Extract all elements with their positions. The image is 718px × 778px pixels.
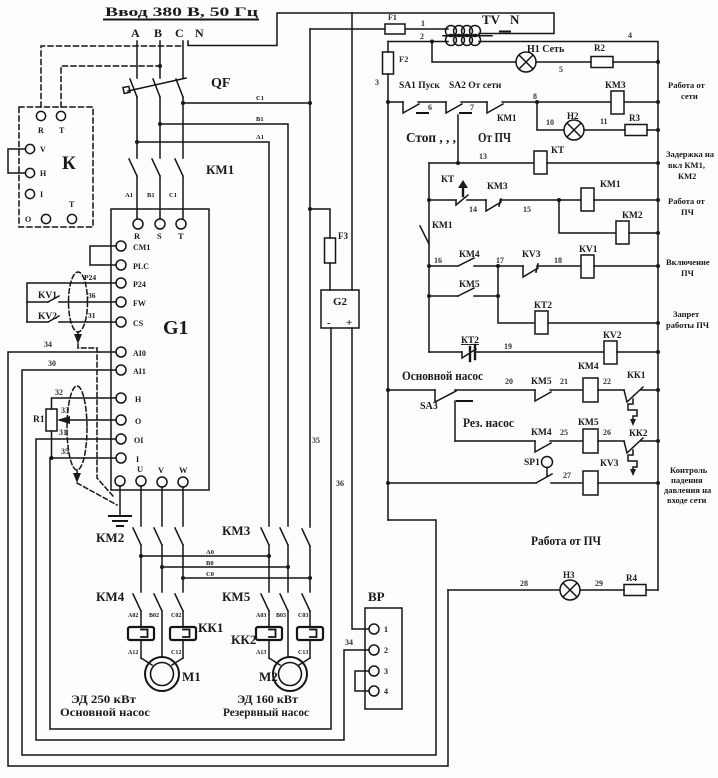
wire 33 O wiper arrow xyxy=(60,419,116,421)
svg-text:В: В xyxy=(154,26,162,40)
svg-text:F2: F2 xyxy=(399,54,408,64)
svg-text:18: 18 xyxy=(554,256,562,265)
jumper CM1-PLC xyxy=(90,246,116,265)
rung SA1 SA2 KM1 / KM3 coil xyxy=(388,101,403,103)
switch SA2 xyxy=(446,102,462,113)
svg-text:ЭД 160 кВт: ЭД 160 кВт xyxy=(237,694,298,706)
bus B0 xyxy=(162,566,288,568)
svg-text:КМ5: КМ5 xyxy=(578,418,599,428)
svg-text:15: 15 xyxy=(523,205,531,214)
svg-text:С13: С13 xyxy=(298,650,308,656)
svg-text:Работа от: Работа от xyxy=(668,196,706,206)
svg-text:25: 25 xyxy=(560,428,568,437)
svg-text:В1: В1 xyxy=(256,116,264,123)
svg-text:С1: С1 xyxy=(256,95,264,102)
K block dashed box xyxy=(19,107,93,227)
lamp H3 xyxy=(560,580,580,600)
svg-text:КК1: КК1 xyxy=(198,620,223,635)
wire phase A vertical xyxy=(136,41,138,78)
G1 bottom terminals xyxy=(115,476,125,486)
svg-text:Работа от ПЧ: Работа от ПЧ xyxy=(531,533,601,548)
svg-text:32: 32 xyxy=(55,388,63,397)
rung KM5 xyxy=(427,294,431,298)
contact KM4 NC interlock xyxy=(531,428,552,438)
K bracket V-H xyxy=(8,149,25,173)
G1 terminal T xyxy=(176,219,186,229)
lamp H2 rung xyxy=(537,102,564,130)
contactor KM4 contacts xyxy=(96,589,125,604)
coil KM2 xyxy=(616,221,629,244)
wire P24 xyxy=(27,283,116,322)
svg-text:КК1: КК1 xyxy=(627,371,646,381)
svg-text:С12: С12 xyxy=(171,650,181,656)
svg-text:КМ1: КМ1 xyxy=(206,162,234,177)
svg-text:Стоп , , ,: Стоп , , , xyxy=(406,130,456,145)
lamp H2 xyxy=(564,120,584,140)
svg-text:ТV: ТV xyxy=(482,12,501,27)
svg-text:А03: А03 xyxy=(256,613,266,619)
K terminal H xyxy=(25,168,34,177)
svg-text:СМ1: СМ1 xyxy=(133,243,150,252)
hold branch vertical xyxy=(428,163,430,352)
shield drain arrow xyxy=(74,334,82,344)
svg-text:R2: R2 xyxy=(594,43,605,53)
rung SA3 main pump xyxy=(388,389,435,391)
pressure switch SP1 xyxy=(524,458,540,468)
svg-text:14: 14 xyxy=(469,205,477,214)
svg-text:ПЧ: ПЧ xyxy=(681,268,695,278)
svg-text:С02: С02 xyxy=(171,613,181,619)
shield oval R1 wires xyxy=(67,386,87,470)
thermal relay KK1 xyxy=(198,620,223,635)
wire G2+ to BP1 xyxy=(352,328,368,629)
svg-text:36: 36 xyxy=(336,479,344,488)
contact KT2 delayed xyxy=(461,336,479,346)
branch to reserve pump rung xyxy=(454,401,456,441)
fuse F3 xyxy=(325,238,336,263)
svg-text:С: С xyxy=(175,26,184,40)
wire N to TV primary top route xyxy=(188,13,554,46)
wire C below QF xyxy=(182,97,184,158)
contactor KM5 contacts xyxy=(222,589,251,604)
svg-text:КМ3: КМ3 xyxy=(222,523,251,538)
rung 16 KV1 xyxy=(427,264,431,268)
svg-text:А: А xyxy=(131,26,140,40)
svg-text:Работа от: Работа от xyxy=(668,80,706,90)
resistor R2 xyxy=(591,57,613,68)
K terminal O2 xyxy=(67,214,76,223)
svg-text:Н: Н xyxy=(135,395,142,404)
resistor R3 xyxy=(625,125,647,136)
contact KK1 thermal NC xyxy=(627,371,646,381)
frequency converter G1 box xyxy=(111,209,209,490)
svg-text:4: 4 xyxy=(384,687,388,696)
svg-text:2: 2 xyxy=(420,32,424,41)
svg-text:N: N xyxy=(195,26,204,40)
svg-text:Рез. насос: Рез. насос xyxy=(463,415,514,430)
contact KM5 NC xyxy=(459,280,480,290)
svg-text:КМ1: КМ1 xyxy=(497,113,517,123)
wire A below QF xyxy=(136,97,138,158)
svg-text:КМ2: КМ2 xyxy=(678,171,696,181)
svg-text:Включение: Включение xyxy=(666,257,710,267)
svg-text:В0: В0 xyxy=(206,560,214,567)
svg-text:4: 4 xyxy=(628,31,632,40)
vertical to KT2 coil xyxy=(498,266,535,323)
wire 34 AI0 long loop xyxy=(8,352,448,766)
QF pole A blade xyxy=(130,79,137,97)
coil KM3 xyxy=(611,91,624,114)
svg-text:I: I xyxy=(40,190,43,199)
svg-text:5: 5 xyxy=(559,65,563,74)
wire 30 AI1 long loop xyxy=(22,370,436,755)
svg-text:КМ4: КМ4 xyxy=(459,250,480,260)
K terminal V xyxy=(25,144,34,153)
svg-text:28: 28 xyxy=(520,579,528,588)
svg-text:R: R xyxy=(38,126,44,135)
svg-text:QF: QF xyxy=(211,76,230,91)
bus C0 xyxy=(183,577,310,579)
labels Стоп / От ПЧ xyxy=(406,130,511,145)
svg-text:R4: R4 xyxy=(626,573,637,583)
K terminal T xyxy=(56,111,65,120)
svg-text:SА2 От сети: SА2 От сети xyxy=(449,81,502,91)
svg-text:KV2: KV2 xyxy=(38,312,57,322)
svg-text:20: 20 xyxy=(505,377,513,386)
svg-text:29: 29 xyxy=(595,579,603,588)
lamp H1 xyxy=(516,52,536,72)
svg-text:Резервный насос: Резервный насос xyxy=(223,707,309,719)
relay contact KV1 xyxy=(38,291,57,301)
transformer TV xyxy=(482,12,520,27)
svg-text:КV3: КV3 xyxy=(600,459,619,469)
G1 terminal S xyxy=(155,219,165,229)
motor M2 xyxy=(259,669,278,684)
svg-text:Ввод 380 В, 50 Гц: Ввод 380 В, 50 Гц xyxy=(105,4,259,19)
wire A1 to KM3 column xyxy=(137,142,269,526)
contact KM4 NC xyxy=(459,250,480,260)
pressure transducer BP xyxy=(368,589,385,604)
fuse F1 xyxy=(385,24,405,34)
svg-text:КМ4: КМ4 xyxy=(578,362,599,372)
wire 4 TV secondary right to rail xyxy=(479,42,658,61)
wires G1 U,V,W down xyxy=(140,486,142,526)
svg-text:V: V xyxy=(40,145,46,154)
svg-text:I: I xyxy=(136,455,139,464)
svg-text:30: 30 xyxy=(48,359,56,368)
svg-text:ОI: ОI xyxy=(134,436,143,445)
wire C1 tap down from control feed xyxy=(309,29,311,527)
svg-text:11: 11 xyxy=(600,117,608,126)
svg-text:АI0: АI0 xyxy=(133,349,146,358)
QF pole C blade xyxy=(176,79,183,97)
shield oval KV wires xyxy=(69,272,88,332)
svg-text:V: V xyxy=(158,465,165,475)
svg-text:Р24: Р24 xyxy=(133,280,146,289)
wire SA2 second throw to rung 13 xyxy=(457,115,459,163)
svg-text:+: + xyxy=(346,317,352,329)
svg-text:SА1 Пуск: SА1 Пуск xyxy=(399,81,440,91)
fuse F2 xyxy=(383,52,394,74)
svg-text:Основной насос: Основной насос xyxy=(60,707,150,719)
svg-text:КМ2: КМ2 xyxy=(96,530,124,545)
left rail xyxy=(387,42,389,53)
coil KM4 xyxy=(583,378,598,402)
svg-text:2: 2 xyxy=(384,646,388,655)
svg-text:F1: F1 xyxy=(388,13,397,22)
svg-text:F3: F3 xyxy=(338,231,348,241)
wire phase B vertical xyxy=(159,41,161,78)
svg-text:С0: С0 xyxy=(206,571,214,578)
svg-text:С03: С03 xyxy=(298,613,308,619)
svg-text:21: 21 xyxy=(560,377,568,386)
wire 31 OI long loop xyxy=(36,439,368,740)
svg-text:Н3: Н3 xyxy=(563,570,575,580)
svg-text:31: 31 xyxy=(59,428,67,437)
wire B below QF xyxy=(159,97,161,158)
svg-text:КМ5: КМ5 xyxy=(531,377,552,387)
switch SA3 xyxy=(420,401,438,412)
svg-text:17: 17 xyxy=(496,256,504,265)
svg-text:В1: В1 xyxy=(147,192,155,199)
contact KK2 thermal NC xyxy=(629,429,648,439)
svg-text:АI1: АI1 xyxy=(133,367,146,376)
svg-text:О: О xyxy=(135,417,141,426)
svg-text:КТ: КТ xyxy=(551,146,565,156)
wire 32 H xyxy=(52,398,117,409)
svg-text:сети: сети xyxy=(681,91,698,101)
svg-text:КМ4: КМ4 xyxy=(531,428,552,438)
rung SP1 pressure / KV3 coil xyxy=(388,482,536,484)
contactor KM3 contacts xyxy=(222,523,251,538)
K terminal R xyxy=(36,111,45,120)
breaker QF xyxy=(211,76,230,91)
svg-text:Запрет: Запрет xyxy=(673,309,700,319)
right side annotations xyxy=(664,80,715,505)
svg-text:Т: Т xyxy=(69,200,75,209)
contact KM3 NC xyxy=(487,182,508,192)
svg-text:Т: Т xyxy=(59,126,65,135)
svg-text:А0: А0 xyxy=(206,549,214,556)
svg-text:КМ1: КМ1 xyxy=(600,180,621,190)
contactor KM1 main contacts xyxy=(206,162,234,177)
relay contact KV2 xyxy=(38,312,57,322)
svg-text:ПЧ: ПЧ xyxy=(681,207,695,217)
svg-text:Р24: Р24 xyxy=(84,273,96,282)
svg-text:КМ1: КМ1 xyxy=(432,221,453,231)
svg-text:R1: R1 xyxy=(33,415,45,425)
svg-text:31: 31 xyxy=(88,311,96,320)
wire branch to F3 xyxy=(310,209,330,238)
contact KT delayed on rung 14 xyxy=(441,175,455,185)
svg-text:22: 22 xyxy=(603,377,611,386)
svg-text:3: 3 xyxy=(375,78,379,87)
contact KM1 aux xyxy=(487,102,503,113)
coil KV1 xyxy=(581,255,594,278)
svg-text:R3: R3 xyxy=(629,113,640,123)
svg-text:падения: падения xyxy=(671,475,703,485)
wire B1 to KM3 column xyxy=(160,124,288,526)
svg-text:10: 10 xyxy=(546,118,554,127)
svg-text:В03: В03 xyxy=(276,613,286,619)
svg-text:Н1 Сеть: Н1 Сеть xyxy=(527,44,565,55)
svg-text:36: 36 xyxy=(88,291,96,300)
coil KV2 xyxy=(604,341,617,364)
svg-text:-: - xyxy=(327,317,331,329)
svg-text:G2: G2 xyxy=(333,296,348,308)
lamp H1 rung xyxy=(432,42,516,63)
wire phase C vertical xyxy=(182,41,184,78)
coil KT xyxy=(534,151,547,174)
svg-text:7: 7 xyxy=(470,103,474,112)
svg-text:А12: А12 xyxy=(128,650,138,656)
K terminal I xyxy=(25,189,34,198)
svg-text:М1: М1 xyxy=(182,669,201,684)
svg-text:КМ4: КМ4 xyxy=(96,589,125,604)
contactor KM2 contacts xyxy=(96,530,124,545)
svg-text:U: U xyxy=(137,464,143,474)
contact KM5 NC interlock xyxy=(531,377,552,387)
svg-text:27: 27 xyxy=(563,471,571,480)
svg-text:N: N xyxy=(510,12,520,27)
svg-text:В02: В02 xyxy=(149,613,159,619)
svg-text:19: 19 xyxy=(504,342,512,351)
rung reserve pump xyxy=(455,440,535,442)
svg-text:13: 13 xyxy=(479,152,487,161)
wire 35 I / R1 bottom long loop to G2- xyxy=(51,431,53,458)
switch SA1 xyxy=(403,102,419,113)
svg-text:СS: СS xyxy=(133,319,144,328)
svg-text:8: 8 xyxy=(533,92,537,101)
svg-text:КТ2: КТ2 xyxy=(461,336,479,346)
svg-text:К: К xyxy=(62,153,76,174)
coil KM5 xyxy=(583,429,598,453)
rung KT2 contact / KV2 coil xyxy=(429,351,462,353)
svg-text:6: 6 xyxy=(428,103,432,112)
BP3-BP4 jumper xyxy=(355,671,369,691)
svg-text:А1: А1 xyxy=(256,134,264,141)
svg-text:Контроль: Контроль xyxy=(670,465,708,475)
svg-text:КМ3: КМ3 xyxy=(605,81,626,91)
motor M1 xyxy=(182,669,201,684)
rung 13 KT coil xyxy=(429,162,534,164)
coil KT2 xyxy=(535,311,548,334)
svg-text:КV3: КV3 xyxy=(522,250,541,260)
svg-text:W: W xyxy=(179,465,188,475)
svg-text:Н: Н xyxy=(40,169,47,178)
svg-text:ВР: ВР xyxy=(368,589,385,604)
svg-text:давления на: давления на xyxy=(664,485,712,495)
svg-text:26: 26 xyxy=(603,428,611,437)
right rail xyxy=(657,60,659,590)
svg-text:входе сети: входе сети xyxy=(667,495,707,505)
resistor R4 xyxy=(624,585,646,596)
svg-text:34: 34 xyxy=(44,340,52,349)
svg-text:Задержка на: Задержка на xyxy=(666,149,715,159)
svg-text:PLC: PLC xyxy=(133,262,149,271)
svg-text:С1: С1 xyxy=(169,192,177,199)
K terminal O1 xyxy=(41,214,50,223)
svg-text:3: 3 xyxy=(384,667,388,676)
svg-text:SР1: SР1 xyxy=(524,458,540,468)
QF pole B blade xyxy=(153,79,160,97)
svg-text:КV2: КV2 xyxy=(603,331,622,341)
wire 2 TV secondary left xyxy=(388,41,448,43)
svg-text:вкл КМ1,: вкл КМ1, xyxy=(668,160,705,170)
wire C1 to KM3 column xyxy=(183,102,310,104)
svg-text:КМ5: КМ5 xyxy=(222,589,251,604)
svg-text:А1: А1 xyxy=(125,192,133,199)
title Ввод 380 В, 50 Гц xyxy=(105,4,259,19)
svg-text:А02: А02 xyxy=(128,613,138,619)
wire N from top to G2 xyxy=(351,13,353,290)
phase labels A B C N xyxy=(131,26,204,40)
svg-text:Основной насос: Основной насос xyxy=(402,368,483,383)
G1 left terminals xyxy=(116,241,126,251)
branch KM2 coil xyxy=(559,200,616,233)
rectifier G2 xyxy=(321,290,359,328)
svg-text:КК2: КК2 xyxy=(231,632,256,647)
svg-text:А13: А13 xyxy=(256,650,266,656)
svg-text:S: S xyxy=(157,231,162,241)
svg-text:G1: G1 xyxy=(163,317,189,339)
svg-text:ЭД 250 кВт: ЭД 250 кВт xyxy=(71,694,136,706)
potentiometer R1 xyxy=(33,415,45,425)
node on B phase xyxy=(158,64,162,68)
QF crossbar with handle xyxy=(128,78,186,91)
wire dashed K to B phase xyxy=(61,66,160,107)
bus A0 xyxy=(141,555,269,557)
contact KM1 hold on vertical xyxy=(432,221,453,231)
shield drain arrow 2 xyxy=(76,470,78,474)
svg-text:FW: FW xyxy=(133,299,146,308)
svg-text:34: 34 xyxy=(345,638,353,647)
svg-text:1: 1 xyxy=(421,19,425,28)
svg-text:Т: Т xyxy=(178,231,184,241)
svg-text:1: 1 xyxy=(384,625,388,634)
svg-text:35: 35 xyxy=(312,436,320,445)
wire dashed K to C phase xyxy=(41,46,181,107)
svg-text:КМ3: КМ3 xyxy=(487,182,508,192)
svg-text:КV1: КV1 xyxy=(579,245,598,255)
svg-text:работы ПЧ: работы ПЧ xyxy=(666,320,710,330)
svg-text:КК2: КК2 xyxy=(629,429,648,439)
thermal relay KK2 xyxy=(231,632,256,647)
coil KV3 xyxy=(583,471,598,495)
svg-text:КМ5: КМ5 xyxy=(459,280,480,290)
svg-text:KV1: KV1 xyxy=(38,291,57,301)
svg-text:О: О xyxy=(25,215,31,224)
svg-text:R: R xyxy=(134,231,141,241)
lamp H3 rung xyxy=(531,533,601,548)
svg-text:КТ2: КТ2 xyxy=(534,301,552,311)
ground below G1 xyxy=(119,486,121,516)
G1 terminal R xyxy=(133,219,143,229)
wire 1 to TV primary xyxy=(310,28,448,30)
svg-text:КТ: КТ xyxy=(441,175,455,185)
svg-text:16: 16 xyxy=(434,256,442,265)
svg-text:От ПЧ: От ПЧ xyxy=(478,130,511,145)
svg-text:КМ2: КМ2 xyxy=(622,211,643,221)
coil KM1 xyxy=(581,188,594,211)
contact KV3 NC xyxy=(522,250,541,260)
